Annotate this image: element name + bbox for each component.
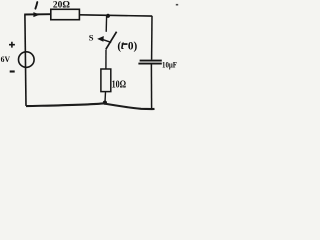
wire: top-right corner down to capacitor (151, 16, 153, 60)
svg-text:20Ω: 20Ω (53, 0, 70, 10)
svg-text:S: S (89, 33, 94, 43)
wire: bottom (left corner to right corner) (26, 103, 155, 109)
junction node (top of switch branch) (106, 14, 110, 18)
wire: capacitor to bottom-right corner (150, 64, 152, 109)
current arrow i (on top wire) (33, 12, 40, 17)
label - (source polarity) (10, 70, 15, 72)
svg-text:6V: 6V (1, 55, 11, 64)
voltage source V1 (circle) (19, 52, 35, 68)
svg-text:10μF: 10μF (162, 59, 177, 69)
wire: top-left corner to resistor R1 (24, 13, 51, 15)
wire: left vertical (source branch, top corner to bottom corner) (25, 15, 26, 106)
wire: switch to resistor R2 (105, 50, 107, 70)
svg-text:10Ω: 10Ω (112, 80, 127, 91)
label + (source polarity) (9, 42, 15, 48)
stray ink speck (176, 4, 178, 6)
label i (35, 2, 37, 9)
capacitor C1 top plate (140, 60, 162, 62)
resistor R1 20ohm box (51, 9, 80, 19)
wire: resistor R1 to top-right corner (79, 15, 152, 16)
junction node (bottom of switch branch) (103, 101, 107, 105)
switch S lever (open, t=0) (106, 32, 117, 50)
switch closing arrow (103, 40, 111, 43)
wire: switch top stub (105, 16, 107, 32)
svg-text:0): 0) (128, 40, 138, 52)
resistor R2 10ohm box (101, 69, 111, 92)
capacitor C1 bottom plate (138, 63, 161, 65)
wire: resistor R2 to bottom node (104, 92, 107, 103)
